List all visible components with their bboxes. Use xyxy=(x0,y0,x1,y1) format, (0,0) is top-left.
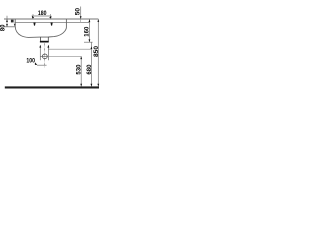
tap hole mark left xyxy=(33,23,35,26)
flange bottom extension tick H5 xyxy=(84,41,93,43)
dimension 50 line xyxy=(80,7,82,19)
left extension line H3 xyxy=(4,26,15,28)
tap hole tick right xyxy=(49,14,51,19)
dimension 850 line xyxy=(97,19,99,87)
floor line xyxy=(5,86,99,88)
mid extension line H6 xyxy=(48,48,90,50)
svg-text:100: 100 xyxy=(26,57,35,64)
centre height extension to 530 line xyxy=(48,55,81,57)
arrow up on left side line xyxy=(39,45,41,48)
drain side line right xyxy=(47,45,49,60)
drain outlet circle xyxy=(43,54,48,59)
arrow 680 upper xyxy=(91,46,93,49)
arrow 850 bottom xyxy=(97,84,99,87)
dimension 180 line xyxy=(32,15,51,17)
arrow 80 top xyxy=(6,19,8,22)
circle horizontal centre line H7 xyxy=(40,55,48,57)
corner arrow blob at basin left edge xyxy=(14,24,16,27)
bracket mark left of basin xyxy=(11,20,14,23)
dimension 80 line xyxy=(6,16,8,27)
dimension 160 line xyxy=(88,19,90,42)
svg-text:50: 50 xyxy=(74,7,81,15)
arrow 180 right xyxy=(49,16,51,19)
drain centre line (dash-dot) xyxy=(44,43,46,68)
arrow up on right side line xyxy=(47,45,49,48)
arrow 530 top xyxy=(80,56,82,59)
drain flange U xyxy=(40,37,48,41)
arrow 160 bottom xyxy=(89,39,91,42)
svg-text:850: 850 xyxy=(93,45,100,57)
dimension 680 line xyxy=(90,42,92,86)
arrow 160 top xyxy=(89,19,91,22)
tap hole mark right xyxy=(51,23,53,26)
drain flange dark bottom bar xyxy=(40,41,49,43)
arrow 680 bottom xyxy=(91,84,93,87)
arrow 50 bottom xyxy=(80,16,82,19)
svg-text:80: 80 xyxy=(0,24,6,31)
drain side line left xyxy=(39,45,41,60)
background xyxy=(0,0,100,100)
arrow 530 bottom xyxy=(80,84,82,87)
arrow 850 top xyxy=(97,19,99,22)
dimension 530 line xyxy=(80,56,82,86)
dimension 100 line xyxy=(37,64,47,66)
tap hole tick left xyxy=(32,14,34,19)
arrow 80 bottom xyxy=(6,24,8,27)
washbasin outline front view xyxy=(15,19,66,37)
arrow 100 xyxy=(35,62,37,65)
arrow 180 left xyxy=(32,16,34,19)
rim top line H1 xyxy=(4,18,98,20)
rim inner line H2 xyxy=(15,21,89,23)
50 dim stub below rim xyxy=(80,19,82,22)
